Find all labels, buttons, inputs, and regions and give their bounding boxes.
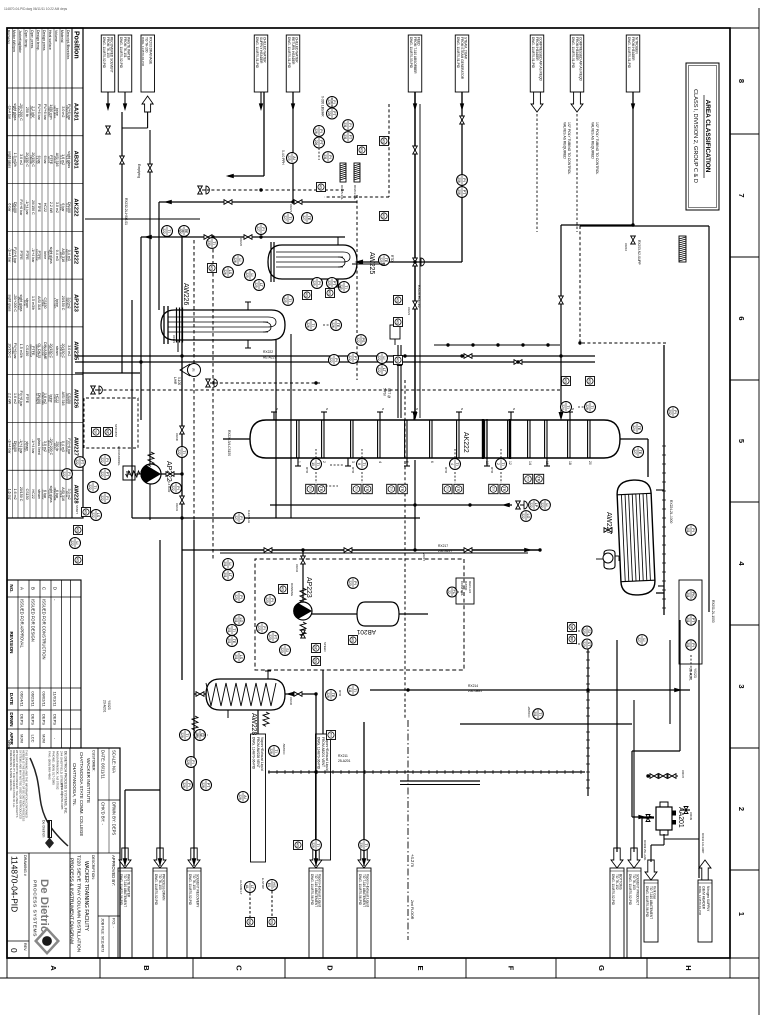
svg-text:06/14/11: 06/14/11 [20,691,25,707]
flow arrow [502,503,510,508]
svg-text:2: 2 [496,463,500,465]
svg-text:DWG. 114870-06-PID: DWG. 114870-06-PID [317,737,321,770]
pipe: drain stub [75,372,140,374]
svg-text:WASTE WATER: WASTE WATER [127,874,131,898]
svg-text:TI: TI [362,462,366,465]
pipe: AW225 outlet [352,263,385,265]
svg-text:222: 222 [88,484,92,490]
instrument bubble PT 225 [327,278,338,289]
interlock box HS [208,264,217,273]
svg-text:201: 201 [686,642,690,648]
svg-text:PI: PI [270,598,274,601]
svg-text:PI: PI [691,528,695,531]
svg-text:RX224-2L-1000: RX224-2L-1000 [669,500,673,523]
svg-text:0-100: 0-100 [177,377,181,385]
svg-text:DESCRIPTION:: DESCRIPTION: [91,855,95,880]
pipe: overhead vapor [630,438,648,440]
heat exchanger AW227 [617,479,656,595]
AW225 internal tubes [276,251,343,253]
interlock box TY [443,484,452,493]
svg-text:F: F [507,966,516,971]
svg-text:LI: LI [545,504,549,507]
svg-text:201: 201 [686,617,690,623]
svg-text:N: N [460,408,464,410]
valve [413,146,418,154]
svg-text:0-4.0 PPH: 0-4.0 PPH [281,150,285,165]
svg-text:FI: FI [191,760,195,763]
instrument bubble FI 226 [327,97,338,108]
svg-text:DRAWING #: DRAWING # [23,855,27,877]
svg-text:10: 10 [311,462,315,466]
svg-text:E-STOP: E-STOP [261,878,265,889]
svg-text:RTD: RTD [351,467,355,474]
flow arrow [144,235,152,240]
flow arrow [164,200,172,205]
interlock box HS [586,377,595,386]
interlock box SI [92,428,101,437]
interlock box HS [317,183,326,192]
pipe: vapors to flag 2 [363,722,365,866]
svg-text:ES: ES [267,883,271,887]
svg-text:DRWN: DRWN [9,712,14,727]
svg-text:HS: HS [319,185,323,190]
instrument bubble PI 206 [457,175,468,186]
instrument bubble TI 222 [162,226,173,237]
svg-text:E: E [416,965,425,970]
svg-text:TI: TI [288,216,292,219]
instrument bubble TI 230 [207,238,218,249]
svg-text:TI: TI [288,298,292,301]
svg-text:SCALE: N/A: SCALE: N/A [112,750,117,773]
svg-text:202: 202 [668,409,672,415]
signal: dashed left [207,189,344,191]
svg-text:11/01/11: 11/01/11 [53,692,58,708]
svg-text:B: B [31,587,36,590]
svg-text:20/150 C: 20/150 C [31,200,35,215]
pump AP223 [293,602,312,620]
svg-text:MJM: MJM [20,734,25,743]
svg-text:222: 222 [91,512,95,518]
instrument bubble AI 228 [238,792,249,803]
svg-text:231: 231 [343,122,347,128]
svg-text:FROM STEAM GENERATOR: FROM STEAM GENERATOR [460,37,464,80]
svg-text:PS: PS [361,338,365,343]
svg-text:V0226: V0226 [239,238,243,247]
pipe: AP222 suction header [132,517,420,519]
svg-text:222: 222 [75,459,79,465]
svg-text:FROM HEADER: FROM HEADER [575,37,579,61]
svg-text:HS: HS [396,320,400,325]
flow arrow [460,103,464,111]
AW228 inlet flex [263,712,269,726]
instrument bubble LT 225 [254,280,265,291]
interlock box HS [74,556,83,565]
svg-text:Y0023: Y0023 [693,668,697,678]
svg-text:HS: HS [296,843,300,848]
svg-text:0-330 LBS/HR: 0-330 LBS/HR [321,96,325,117]
svg-text:222: 222 [348,355,352,361]
svg-text:3.0 m2: 3.0 m2 [61,106,65,117]
svg-text:WASTE WATER: WASTE WATER [127,37,131,61]
interlock box TR [454,484,463,493]
instrument bubble FI 223 [257,623,268,634]
valve [514,360,522,365]
interlock box TY [523,474,532,483]
svg-text:225: 225 [254,282,258,288]
heat exchanger AW225 [268,245,357,279]
svg-text:DEPS: DEPS [42,714,47,725]
svg-text:TO T-110 ABATEMENT: TO T-110 ABATEMENT [123,874,127,907]
tray heavy [509,419,511,459]
svg-text:N: N [275,408,279,410]
svg-text:CONTROL: CONTROL [460,581,464,596]
svg-text:TO TK-100: TO TK-100 [158,874,162,890]
interlock box XS [268,918,277,927]
valve [264,548,272,553]
svg-text:3.0 m2: 3.0 m2 [55,202,59,213]
svg-text:LS: LS [96,513,100,518]
pipe: AW228 to vent flag [257,710,259,734]
svg-text:20: 20 [588,461,592,465]
valve [180,426,185,434]
valve [668,774,676,779]
poly tubing line 1 [536,114,538,232]
svg-text:DWG. 114870-01-PID: DWG. 114870-01-PID [627,37,631,69]
svg-text:RX205-3/4L: RX205-3/4L [340,185,344,200]
instrument bubble TE 227 [633,447,644,458]
column bottom nozzle [236,438,250,440]
svg-text:RE-A227: RE-A227 [263,356,277,360]
svg-text:DWG. 114870-01-PID: DWG. 114870-01-PID [571,37,575,69]
svg-text:P.O. -: P.O. - [112,918,117,929]
rotameter FI [180,364,201,377]
valve [204,235,212,240]
interlock box TY [306,484,315,493]
svg-text:25L-0881: 25L-0881 [468,689,482,693]
flow arrow [286,692,294,697]
svg-text:3.0 m2: 3.0 m2 [67,345,71,356]
svg-text:5: 5 [737,439,746,443]
svg-text:-50/80 C: -50/80 C [282,743,286,755]
flow arrow [226,174,234,179]
svg-text:226: 226 [233,257,237,263]
pipe: cw riser 2 [159,201,357,203]
svg-text:0: 0 [9,948,19,953]
svg-text:HS: HS [396,298,400,303]
svg-text:AK222: AK222 [73,198,79,216]
svg-text:CHILLED WATER: CHILLED WATER [263,37,267,63]
svg-text:225: 225 [287,155,291,161]
AW226 side nozzle [177,340,179,352]
svg-text:Heat surface: Heat surface [48,30,52,50]
flow arrow [646,815,654,819]
pipe: feed tracing line [419,104,421,418]
svg-text:DRWN BY: DEPS: DRWN BY: DEPS [112,802,117,835]
valve [413,301,418,309]
svg-text:223: 223 [348,580,352,586]
svg-text:5 PSI: 5 PSI [383,388,387,396]
svg-text:1/2" POLY TUBING TO CONTROL: 1/2" POLY TUBING TO CONTROL [595,122,599,174]
instrument bubble PT 222 [348,353,359,364]
svg-text:WACKER TRAINING FACILITY: WACKER TRAINING FACILITY [83,861,89,932]
instrument bubble FI 228 [186,757,197,768]
svg-text:FROM TK-101: FROM TK-101 [123,37,127,58]
svg-text:FC: FC [452,590,456,595]
connector: compressed air 1 [530,35,544,92]
svg-text:DWG. 114870-02-PID: DWG. 114870-02-PID [188,874,192,906]
svg-text:AP223: AP223 [73,294,79,313]
svg-text:226: 226 [314,128,318,134]
svg-text:Vapors+Exhaust Liquid: Vapors+Exhaust Liquid [260,737,264,771]
svg-text:RX201-2L-1000: RX201-2L-1000 [711,600,715,623]
svg-text:227: 227 [283,215,287,221]
svg-text:4: 4 [737,561,746,566]
svg-text:PT: PT [206,783,210,788]
pipe: AB201 vent to flag [322,670,324,734]
svg-text:steam: steam [37,489,41,499]
valve [294,200,302,205]
AP222 discharge flex [126,471,140,477]
svg-text:www.ddpsinc.com: www.ddpsinc.com [60,783,64,810]
instrument bubble TI 222 [88,482,99,493]
svg-text:PT: PT [105,472,109,477]
interlock box TY [387,484,396,493]
svg-text:PT: PT [332,281,336,286]
svg-text:PI: PI [328,155,332,158]
signal [271,891,273,917]
instrument bubble TT 228 [195,730,206,741]
svg-text:Design temp.: Design temp. [36,30,40,51]
interlock box HS [562,377,571,386]
valve [631,236,636,244]
pipe: reflux line pair [220,552,528,554]
interlock box TY [489,484,498,493]
pipe: bottoms [223,438,236,440]
svg-text:PI: PI [462,178,466,181]
svg-text:228: 228 [201,782,205,788]
svg-text:114870-04-PID: 114870-04-PID [10,856,20,912]
svg-text:06/23/11: 06/23/11 [31,691,36,707]
De Dietrich diamond emblem [34,927,60,955]
instrument bubble PI 228 [182,780,193,791]
pipe: AB201 to AP223 [312,613,357,615]
pipe: AA201 outlet [663,834,665,845]
svg-text:DWG. 114870-01-PID: DWG. 114870-01-PID [456,37,460,69]
pipe: AA201 inlet [681,809,690,811]
revision table [7,580,81,748]
instrument bubble PT 226 [314,137,325,148]
flow arrow [291,103,295,111]
interlock box HS [82,508,91,517]
svg-text:THIS DRAWING AND THE INFORMATI: THIS DRAWING AND THE INFORMATION CONTAIN… [25,750,29,818]
svg-text:12: 12 [508,461,512,465]
svg-text:AW226: AW226 [73,389,79,409]
svg-text:CS150: CS150 [25,345,29,356]
svg-text:AA201: AA201 [73,103,79,122]
feed tray [482,419,484,459]
signal: dashed to AP223 box [212,237,214,560]
svg-text:HS: HS [328,291,332,296]
svg-text:222: 222 [377,367,381,373]
svg-text:FV/+6 bar: FV/+6 bar [19,199,23,216]
flow arrow [638,815,646,819]
svg-text:C: C [42,587,47,590]
valve [659,774,667,779]
valve [460,116,465,124]
svg-text:V0037: V0037 [681,770,685,779]
svg-text:SI: SI [285,648,289,651]
svg-text:MB002: MB002 [7,740,11,750]
svg-text:227: 227 [633,449,637,455]
svg-text:JOB FILE: 90114873: JOB FILE: 90114873 [101,918,105,952]
svg-text:FEED: FEED [417,37,421,46]
svg-text:DWG. 114870-01-PID: DWG. 114870-01-PID [531,37,535,69]
svg-text:G: G [597,965,606,971]
instrument bubble FI 222 [62,469,73,480]
svg-text:AW225: AW225 [368,252,375,275]
interlock box HS [294,841,303,850]
pipe: vent link [669,640,671,724]
svg-text:CHATTANOOGA, TN.: CHATTANOOGA, TN. [72,763,77,806]
connector: vent gas [645,860,657,880]
svg-text:AP222: AP222 [73,246,79,264]
svg-text:-: - [53,599,58,601]
svg-text:PTFE: PTFE [37,203,41,213]
svg-text:AW228: AW228 [250,713,257,736]
PIC panel box [679,580,702,664]
svg-text:RX226-HCL-1/2: RX226-HCL-1/2 [417,285,421,308]
svg-text:SS: SS [314,659,318,664]
interlock box TY [352,484,361,493]
valve [196,692,204,697]
svg-text:TO T-110 ABATEMENT: TO T-110 ABATEMENT [362,874,366,907]
svg-text:PROCESS SYSTEMS: PROCESS SYSTEMS [32,880,38,937]
flow arrow [259,103,263,111]
svg-text:225: 225 [245,272,249,278]
pipe: AW228 out [194,693,206,695]
pipe: AA201 N2 link [664,838,699,840]
instrument bubble FT 223 [268,632,279,643]
svg-text:V0234: V0234 [295,564,299,573]
svg-text:1.6 m2: 1.6 m2 [13,489,17,500]
connector: nitrogen [626,35,640,92]
pump AP222 [140,464,161,484]
instrument bubble AI 225 [287,153,298,164]
svg-text:TI: TI [364,843,368,846]
instrument bubble PI 223 [348,578,359,589]
svg-text:HS: HS [305,293,309,298]
area classification note box [686,63,719,210]
flow arrow [559,412,564,421]
column nozzles right [297,458,299,466]
svg-text:brine: brine [43,251,47,259]
instrument bubble PI 201 [686,525,697,536]
pipe: nitrogen [632,92,634,225]
svg-text:231: 231 [343,134,347,140]
svg-text:FV/+6 bar: FV/+6 bar [37,104,41,121]
valve [301,556,306,564]
svg-text:SC: SC [314,646,318,651]
svg-text:DATE: 06/11/11: DATE: 06/11/11 [101,750,106,780]
AP223 discharge flex [300,622,306,636]
signal: dashed mid [213,382,320,384]
svg-text:TO TK-103: TO TK-103 [632,874,636,890]
svg-text:TE: TE [638,450,642,455]
svg-text:201: 201 [227,627,231,633]
svg-text:2.2 kW: 2.2 kW [7,393,11,405]
instrument bubble LS 226 [223,267,234,278]
connector: drainage out (hollow arrow left) [141,35,155,92]
svg-text:FROM AB201 VENT: FROM AB201 VENT [321,737,325,767]
interlock box TR [398,484,407,493]
svg-text:228: 228 [326,692,330,698]
svg-text:DWG. 114870-02-PID: DWG. 114870-02-PID [141,37,145,67]
svg-text:6: 6 [737,316,746,320]
svg-text:PI: PI [691,643,695,646]
svg-text:228: 228 [182,782,186,788]
instrument bubble HS ES [267,880,278,891]
AW226 bottom flange ticks [167,306,169,344]
svg-text:TI: TI [93,485,97,488]
svg-text:227: 227 [234,515,238,521]
svg-text:TE: TE [637,426,641,431]
svg-text:FI: FI [191,368,195,371]
interlock box TR [500,484,509,493]
svg-text:222: 222 [62,471,66,477]
interlock box HS [394,296,403,305]
svg-text:V0217: V0217 [422,553,426,562]
svg-text:18: 18 [568,461,572,465]
svg-text:-: - [53,738,58,740]
instrument bubble TI 224 [561,402,572,413]
control valve [91,386,96,394]
instrument bubble LT 222 [377,365,388,376]
svg-text:223: 223 [268,634,272,640]
svg-text:A: A [49,965,58,971]
svg-text:AB201: AB201 [73,151,79,170]
pipe: main header 2 [75,361,595,363]
instrument bubble TE 224 [632,423,643,434]
instrument bubble TI 225 [339,282,350,293]
svg-text:DWG. 114870-06-PID: DWG. 114870-06-PID [119,874,123,906]
svg-text:AREA CLASSIFICATION: AREA CLASSIFICATION [704,100,711,173]
svg-text:LP: LP [534,503,538,508]
svg-text:TI: TI [274,749,278,752]
pipe: emptying header [149,130,151,520]
svg-text:DWG. 114870-01-PID: DWG. 114870-01-PID [287,37,291,69]
svg-text:N: N [325,408,329,410]
flow arrow [524,548,532,553]
flow arrow [631,103,635,111]
AW228 outlet flex [192,716,198,730]
pipe: RX232 drainage header [121,112,123,373]
svg-text:222: 222 [329,357,333,363]
valve [294,692,302,697]
svg-text:228: 228 [238,794,242,800]
instrument bubble TE 228 [326,690,337,701]
svg-text:2.2 kW: 2.2 kW [49,202,53,214]
interlock box HS [394,318,403,327]
heat exchanger AW228 [206,679,285,710]
svg-text:NITROGEN: NITROGEN [635,37,639,55]
valve AP222 discharge [166,472,174,477]
small logo mark [48,820,53,838]
svg-text:222: 222 [70,540,74,546]
svg-text:VALVES AS REQUIRED: VALVES AS REQUIRED [591,122,595,159]
svg-text:-1/+4 bar: -1/+4 bar [31,248,35,263]
svg-text:DWG. 114870-02-PID: DWG. 114870-02-PID [628,874,632,906]
instrument bubble LS 222 [91,510,102,521]
